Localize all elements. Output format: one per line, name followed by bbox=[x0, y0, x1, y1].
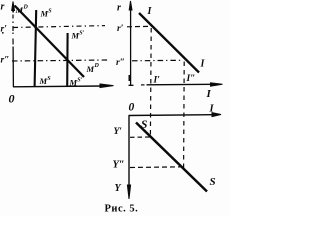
svg-text:0: 0 bbox=[9, 92, 15, 106]
svg-text:S′: S′ bbox=[77, 78, 82, 84]
wire Y' dash level bbox=[130, 136, 151, 138]
svg-text:M: M bbox=[69, 78, 78, 88]
wire I' vertical dashed drop line bbox=[149, 28, 152, 137]
wire r' dash level (right) bbox=[127, 25, 152, 28]
svg-text:I′: I′ bbox=[153, 76, 161, 86]
label M^S' (top) bbox=[71, 31, 85, 41]
svg-text:M: M bbox=[40, 9, 49, 19]
bottom diagram: horizontal axis I bbox=[129, 113, 222, 117]
wire r'' dash-dot level (left) bbox=[12, 60, 109, 61]
label M^S (top) bbox=[40, 9, 53, 19]
svg-text:M: M bbox=[71, 31, 80, 41]
savings curve S bbox=[136, 123, 207, 192]
svg-text:Рис. 5.: Рис. 5. bbox=[105, 204, 139, 215]
supply line M^S' bbox=[66, 33, 69, 87]
wire r' dash-dot level (left) bbox=[13, 26, 105, 28]
svg-text:r: r bbox=[1, 2, 5, 13]
svg-text:M: M bbox=[39, 76, 48, 86]
top-right diagram: horizontal axis I bbox=[129, 83, 223, 86]
demand curve M^D bbox=[15, 6, 85, 78]
top-right diagram: vertical axis r bbox=[129, 1, 132, 86]
svg-text:M: M bbox=[15, 5, 24, 15]
wire r'' dash-dot level (right) bbox=[132, 59, 181, 62]
wire Y'' dash level bbox=[130, 166, 185, 169]
svg-text:D: D bbox=[94, 63, 100, 69]
wire stray scan dot near left axis bbox=[2, 32, 4, 34]
svg-text:M: M bbox=[86, 64, 95, 74]
investment demand curve I bbox=[139, 13, 199, 73]
svg-text:S′: S′ bbox=[79, 31, 84, 37]
svg-text:I: I bbox=[206, 88, 212, 100]
label M^S (axis foot) bbox=[39, 76, 52, 86]
svg-text:Y: Y bbox=[115, 183, 122, 194]
svg-text:0: 0 bbox=[129, 102, 135, 114]
label M^S' (axis foot) bbox=[69, 78, 83, 88]
svg-text:I″: I″ bbox=[186, 74, 196, 84]
svg-text:r: r bbox=[117, 3, 121, 14]
left diagram: vertical axis r bbox=[12, 2, 15, 88]
left diagram: horizontal axis M bbox=[13, 84, 114, 88]
label M^D (bottom right of curve) bbox=[86, 63, 100, 74]
svg-text:D: D bbox=[23, 5, 29, 11]
svg-text:S: S bbox=[210, 176, 216, 188]
svg-text:S: S bbox=[141, 119, 147, 131]
bottom diagram: vertical axis Y (downward) bbox=[127, 116, 130, 200]
wire I'' vertical dashed drop line bbox=[183, 62, 186, 169]
label M^D (top) bbox=[15, 5, 29, 16]
supply line M^S bbox=[35, 10, 37, 87]
svg-text:r″: r″ bbox=[116, 58, 125, 68]
svg-text:Y′: Y′ bbox=[114, 127, 123, 137]
svg-text:r″: r″ bbox=[1, 56, 10, 66]
svg-text:r′: r′ bbox=[1, 25, 8, 35]
svg-text:Y″: Y″ bbox=[113, 160, 125, 171]
svg-text:r′: r′ bbox=[117, 24, 124, 34]
